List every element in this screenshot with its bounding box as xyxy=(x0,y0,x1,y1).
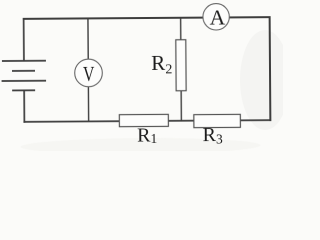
svg-text:V: V xyxy=(83,62,95,86)
svg-text:A: A xyxy=(210,5,226,29)
